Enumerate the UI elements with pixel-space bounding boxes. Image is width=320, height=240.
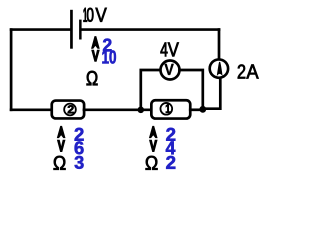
voltmeter V1 letter V <box>165 64 174 75</box>
annotation battery: current value 2 (blue) <box>103 39 112 52</box>
battery B1 left long plate <box>70 10 73 49</box>
annotation battery: unit V (condensed bold) <box>91 50 100 62</box>
wire: bottom horizontal resistor R2 to resistor R1 <box>84 108 152 111</box>
wire: resistor R1 right to node B <box>190 108 203 111</box>
wire: bottom-left horizontal to resistor R2 <box>11 108 52 111</box>
wire: right vertical down to ammeter <box>218 30 221 60</box>
ammeter A1 circle <box>210 59 228 77</box>
resistor R1 circled digit 1 - digit <box>166 104 170 113</box>
node B junction dot <box>199 106 206 113</box>
battery B1 right short plate <box>79 20 82 40</box>
wire: left vertical side <box>10 30 13 110</box>
annotation R2: unit V (condensed bold) <box>57 140 66 152</box>
label: voltmeter reading 4V - digit 4 <box>161 43 168 57</box>
annotation R1: ohm unit symbol <box>146 156 158 170</box>
node A junction dot <box>138 107 145 114</box>
annotation battery: unit A (condensed bold) <box>91 36 100 49</box>
voltmeter V1 circle <box>161 61 180 80</box>
annotation R1: current value 2 (blue) <box>166 128 175 141</box>
annotation R2: unit A (condensed bold) <box>57 126 66 138</box>
resistor R2 circled digit 2 - circle <box>64 104 76 116</box>
resistor R1 circled digit 1 - circle <box>160 103 172 115</box>
wire: voltmeter right branch to node B <box>180 70 203 108</box>
annotation R2: resistance value 3 (blue) <box>75 156 84 169</box>
label: voltmeter reading 4V - letter V <box>168 43 179 57</box>
ammeter A1 condensed letter A symbol <box>217 62 223 76</box>
annotation battery: ohm unit symbol <box>87 71 98 85</box>
annotation R1: unit V (condensed bold) <box>149 140 158 152</box>
resistor R1 box <box>151 100 190 118</box>
annotation R2: ohm unit symbol <box>54 156 66 170</box>
annotation R2: current value 2 (blue) <box>75 128 84 141</box>
resistor R2 circled digit 2 - digit <box>68 105 74 113</box>
wire: top-left horizontal from left corner to battery <box>11 28 70 31</box>
label: ammeter reading 2A - digit 2 <box>238 65 245 79</box>
wire: voltmeter left branch from node A up <box>141 70 161 109</box>
annotation R1: voltage value 4 (blue) <box>166 141 176 154</box>
annotation R2: voltage value 6 (blue) <box>75 141 84 154</box>
label: battery voltage 10V - letter V <box>96 8 107 22</box>
annotation battery: voltage value 10 (blue) <box>102 50 116 63</box>
label: battery voltage 10V - digit 1 <box>84 8 88 22</box>
label: ammeter reading 2A - letter A <box>246 65 258 79</box>
resistor R2 box <box>52 101 84 119</box>
label: battery voltage 10V - digit 0 <box>87 8 94 22</box>
wire: ammeter bottom down to node B <box>203 78 220 109</box>
annotation R1: resistance value 2 (blue) <box>166 156 175 169</box>
wire: top horizontal from battery to top-right corner <box>82 28 220 31</box>
annotation R1: unit A (condensed bold) <box>149 126 158 138</box>
